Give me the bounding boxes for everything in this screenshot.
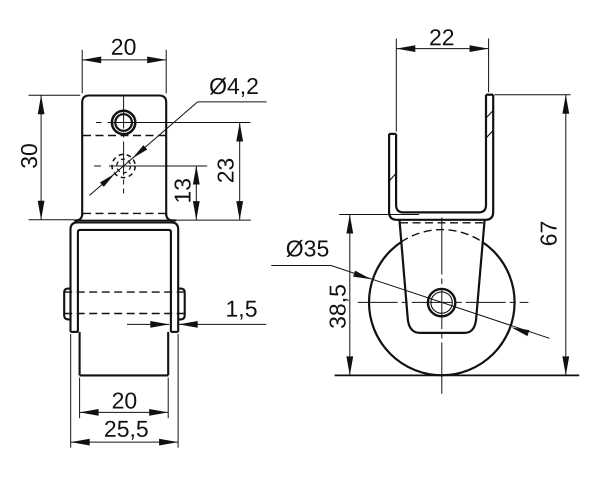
- svg-text:25,5: 25,5: [104, 416, 149, 442]
- svg-text:20: 20: [111, 34, 137, 60]
- svg-text:23: 23: [213, 158, 239, 184]
- svg-text:30: 30: [16, 143, 42, 169]
- svg-text:20: 20: [112, 387, 138, 413]
- svg-text:22: 22: [429, 24, 455, 50]
- svg-text:Ø35: Ø35: [286, 235, 330, 261]
- svg-text:13: 13: [169, 178, 195, 204]
- svg-text:67: 67: [536, 221, 562, 247]
- svg-text:38,5: 38,5: [325, 284, 351, 329]
- svg-text:1,5: 1,5: [226, 296, 258, 322]
- svg-text:Ø4,2: Ø4,2: [209, 73, 259, 99]
